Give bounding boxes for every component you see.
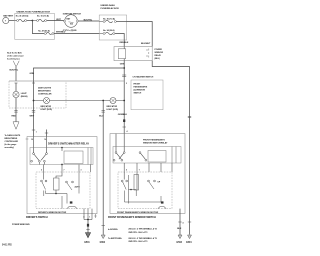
wire GRN vertical through gauge box bbox=[33, 81, 35, 137]
svg-text:DRIVER'S SWITCH/MASTER RELAY: DRIVER'S SWITCH/MASTER RELAY bbox=[48, 143, 89, 146]
svg-text:GRN: GRN bbox=[30, 73, 35, 75]
svg-text:fuse/relay box: fuse/relay box bbox=[7, 58, 21, 60]
svg-text:BLK/YEL: BLK/YEL bbox=[84, 20, 93, 22]
wire BLK to ground G503 bbox=[177, 209, 183, 235]
svg-text:No. 35 (7.5 A): No. 35 (7.5 A) bbox=[103, 18, 115, 21]
callout box: front passenger's switch note bbox=[131, 80, 163, 110]
legend: wire color notes bbox=[108, 228, 158, 244]
svg-text:of the under-hood: of the under-hood bbox=[7, 54, 24, 57]
svg-text:RED/BLK: RED/BLK bbox=[120, 42, 129, 44]
under-dash fuse/relay box bbox=[99, 4, 126, 40]
passenger switch DOWN contact bbox=[137, 172, 161, 190]
svg-text:(2) WINDOW: (2) WINDOW bbox=[134, 90, 145, 92]
pin tick bulb wire into box bbox=[15, 82, 18, 84]
svg-text:G503: G503 bbox=[176, 242, 182, 244]
svg-text:BLU: BLU bbox=[99, 116, 104, 118]
svg-text:2WD 5TH : BLU -4 T3: 2WD 5TH : BLU -4 T3 bbox=[128, 240, 148, 243]
wire BLK/YEL rail1 to under-dash box bbox=[79, 20, 100, 22]
svg-text:AUTO: AUTO bbox=[75, 186, 81, 189]
note: to dash lights brightness controller bbox=[5, 134, 21, 149]
svg-text:DRIVER'S SWITCH: DRIVER'S SWITCH bbox=[26, 216, 48, 219]
connector ticks on GRN/BLK vertical bbox=[118, 114, 128, 133]
passenger relay inner box bbox=[113, 134, 181, 163]
wire arrow from note (funnel) bbox=[13, 61, 19, 67]
fuse No.15 (7.5 A) bbox=[32, 14, 64, 21]
arrow to note (down triangle) bbox=[13, 122, 19, 129]
svg-text:C/V MASTER SWITCH: C/V MASTER SWITCH bbox=[133, 76, 154, 79]
fuse No.35 (7.5 A) bbox=[99, 18, 126, 23]
svg-text:FRONT PASSENGER'S WINDOW SWITC: FRONT PASSENGER'S WINDOW SWITCH bbox=[108, 216, 156, 219]
svg-text:(BLU): (BLU) bbox=[155, 58, 161, 60]
svg-text:DRIVER'S WINDOW MOTOR: DRIVER'S WINDOW MOTOR bbox=[38, 212, 67, 214]
passenger relay right contacts bbox=[172, 147, 176, 164]
svg-text:INDICATOR: INDICATOR bbox=[107, 105, 118, 108]
svg-text:To SWITCHES:: To SWITCHES: bbox=[108, 238, 122, 240]
ground G502 bbox=[100, 235, 106, 244]
dash lights brightness controller label bbox=[38, 87, 52, 96]
node junction after fuse 41 bbox=[32, 20, 34, 22]
svg-text:5: 5 bbox=[41, 170, 42, 172]
svg-text:UNDER-DASH: UNDER-DASH bbox=[101, 4, 116, 7]
node junction at passenger vertical bbox=[123, 100, 125, 102]
under-hood fuse/relay box bbox=[15, 11, 55, 40]
svg-text:2WD 5TH : BLU -4 T3: 2WD 5TH : BLU -4 T3 bbox=[128, 231, 148, 234]
power window master switch box bbox=[26, 137, 97, 214]
svg-text:No. 47 (40 A): No. 47 (40 A) bbox=[38, 29, 50, 32]
svg-text:INDICATOR: INDICATOR bbox=[41, 105, 52, 108]
pin tick bottom right of master box bbox=[94, 214, 96, 218]
passenger window motor M bbox=[158, 201, 166, 208]
svg-text:WINDOW: WINDOW bbox=[155, 52, 164, 54]
svg-text:IG2: IG2 bbox=[70, 23, 73, 25]
svg-text:WINDOW SWITCH/RELAY: WINDOW SWITCH/RELAY bbox=[143, 141, 168, 144]
gauge assembly dashed box bbox=[9, 81, 124, 108]
driver's switch dashed box bbox=[36, 172, 90, 209]
node junction GRN with indicator line bbox=[33, 100, 35, 102]
wire branch down to fuse 47 bbox=[32, 21, 44, 34]
master relay right contacts bbox=[88, 148, 91, 165]
svg-text:To DASH LIGHTS: To DASH LIGHTS bbox=[5, 134, 21, 137]
connector ticks on GRN vertical bbox=[30, 111, 37, 134]
driver's switch UP contact bbox=[41, 172, 47, 196]
svg-text:LIGHT (LED): LIGHT (LED) bbox=[41, 109, 53, 111]
svg-text:10: 10 bbox=[31, 139, 33, 141]
svg-text:(In the gauge: (In the gauge bbox=[5, 143, 18, 146]
svg-text:4: 4 bbox=[183, 222, 184, 225]
svg-text:CONTROLLER: CONTROLLER bbox=[38, 94, 52, 96]
fuse No.34 (20 A) bbox=[99, 29, 115, 34]
svg-text:BRIGHTNESS: BRIGHTNESS bbox=[5, 138, 18, 140]
pin tick GRN wire into box bbox=[32, 82, 35, 84]
svg-text:POWER: POWER bbox=[155, 49, 163, 51]
svg-text:FUSE/RELAY BOX: FUSE/RELAY BOX bbox=[101, 7, 120, 10]
svg-text:3: 3 bbox=[81, 170, 82, 172]
svg-text:GRN: GRN bbox=[120, 64, 125, 66]
svg-text:FRONT PASSENGER'S WINDOW MOTOR: FRONT PASSENGER'S WINDOW MOTOR bbox=[117, 211, 159, 214]
svg-text:4: 4 bbox=[83, 215, 84, 218]
wire battery to under-hood box bbox=[9, 20, 16, 22]
svg-text:assembly): assembly) bbox=[5, 147, 15, 149]
wire RED below gauge box bbox=[12, 108, 18, 122]
connector tick on right vertical bbox=[188, 116, 191, 117]
svg-text:LIGHT (LED): LIGHT (LED) bbox=[107, 109, 119, 111]
connector C on GRN/BLK vertical bbox=[122, 75, 154, 85]
svg-text:2: 2 bbox=[126, 83, 127, 85]
svg-text:BATTERY: BATTERY bbox=[3, 14, 13, 17]
ground G501 bbox=[84, 233, 90, 245]
driver's window motor M bbox=[67, 201, 77, 208]
driver's switch wire bbox=[46, 172, 80, 209]
svg-text:2001-03 : 2 THR GRN/BLU -4 T3: 2001-03 : 2 THR GRN/BLU -4 T3 bbox=[128, 237, 157, 240]
svg-text:DASH LIGHTS: DASH LIGHTS bbox=[38, 87, 52, 90]
master relay inner box bbox=[30, 137, 93, 165]
svg-text:BLK/YEL: BLK/YEL bbox=[10, 70, 19, 72]
wire rail2 WHT/BLU to under-dash box bbox=[54, 32, 99, 34]
svg-text:In BOXES:: In BOXES: bbox=[108, 229, 118, 231]
svg-text:RED: RED bbox=[12, 115, 17, 117]
driver's switch DOWN contact bbox=[54, 172, 81, 194]
svg-text:16: 16 bbox=[44, 139, 46, 141]
svg-text:POWER WINDOWS: POWER WINDOWS bbox=[12, 224, 30, 226]
node junction relay output to master bbox=[123, 67, 125, 69]
svg-text:G504: G504 bbox=[186, 241, 192, 244]
wire illumination ground drop bbox=[99, 100, 105, 235]
wire horizontal feed to master switch bbox=[34, 68, 125, 81]
svg-text:2001-03 : 2 THR GRN/BLU -4 T3: 2001-03 : 2 THR GRN/BLU -4 T3 bbox=[128, 228, 157, 231]
svg-text:IGNITION SWITCH: IGNITION SWITCH bbox=[63, 13, 82, 15]
svg-text:G502: G502 bbox=[100, 242, 106, 244]
wire indicator return stub into master box bbox=[45, 130, 48, 137]
svg-text:LIGHT: LIGHT bbox=[21, 93, 28, 95]
svg-text:1: 1 bbox=[89, 216, 90, 218]
passenger switch UP contact bbox=[121, 172, 127, 196]
svg-text:1: 1 bbox=[36, 132, 37, 134]
ground G503 bbox=[176, 235, 182, 244]
svg-text:G501: G501 bbox=[84, 242, 90, 244]
pins below master relay box bbox=[41, 164, 91, 172]
passenger relay coil bbox=[148, 151, 166, 163]
pins below passenger relay box bbox=[124, 163, 172, 172]
svg-text:BLK: BLK bbox=[177, 228, 182, 230]
svg-text:4: 4 bbox=[127, 130, 128, 133]
power window relay bbox=[114, 47, 163, 61]
svg-text:5: 5 bbox=[126, 170, 127, 172]
front passenger's window switch box bbox=[110, 134, 185, 214]
passenger switch bottom wire bbox=[125, 196, 162, 202]
svg-text:RELAY: RELAY bbox=[155, 54, 162, 57]
svg-text:WHT: WHT bbox=[56, 19, 61, 21]
ignition switch bbox=[63, 13, 82, 32]
svg-text:PASSENGER'S: PASSENGER'S bbox=[134, 86, 148, 89]
passenger switch resistor bbox=[134, 175, 139, 191]
wire indicator feed line bbox=[34, 100, 125, 102]
master relay contact 2 bbox=[41, 148, 47, 165]
passenger switch dashed box bbox=[118, 172, 172, 209]
svg-text:SWITCH: SWITCH bbox=[134, 93, 142, 95]
wire relay output right side bbox=[152, 61, 189, 235]
indicator light LED (master) bbox=[41, 98, 53, 111]
battery B1 bbox=[3, 14, 14, 23]
wire rail1 to right and down bbox=[127, 22, 153, 47]
svg-text:GRN/BLK: GRN/BLK bbox=[118, 114, 128, 116]
svg-text:54-11 FIG: 54-11 FIG bbox=[2, 244, 12, 247]
svg-text:No. 34 (20 A): No. 34 (20 A) bbox=[103, 29, 115, 32]
passenger relay contact 2 bbox=[119, 147, 147, 162]
svg-text:BLU/WHT: BLU/WHT bbox=[141, 43, 151, 45]
svg-text:(C)712 + (R)305: (C)712 + (R)305 bbox=[63, 30, 78, 32]
indicator light LED (passenger) bbox=[107, 98, 119, 111]
svg-text:(BULB): (BULB) bbox=[21, 96, 28, 98]
fuse No.41 (100 A) bbox=[16, 14, 33, 21]
note: to accessory (top-left) bbox=[7, 51, 24, 60]
wire fuse34 output down bbox=[115, 34, 129, 47]
svg-text:FRONT PASSENGER'S: FRONT PASSENGER'S bbox=[143, 139, 165, 142]
svg-text:No. 15 (7.5 A): No. 15 (7.5 A) bbox=[37, 14, 49, 17]
svg-text:CONTROLLER: CONTROLLER bbox=[5, 141, 19, 143]
svg-text:7: 7 bbox=[139, 170, 140, 172]
connector tick right main vertical bbox=[188, 221, 191, 223]
fuse No.47 (40 A) bbox=[38, 29, 54, 34]
pins below master box to ground bbox=[84, 209, 92, 221]
svg-text:FRONT: FRONT bbox=[134, 84, 141, 86]
ground G504 bbox=[186, 235, 192, 244]
illumination bulb bbox=[13, 83, 28, 108]
svg-text:No. 41 (100 A): No. 41 (100 A) bbox=[16, 14, 29, 17]
wire BLK/YEL into gauge assembly bbox=[10, 66, 19, 81]
svg-text:BRIGHTNESS: BRIGHTNESS bbox=[38, 91, 51, 93]
svg-text:No.4 To the BLK: No.4 To the BLK bbox=[7, 51, 22, 54]
wire BLK to ground G501 bbox=[86, 220, 89, 233]
passenger relay contact 1 bbox=[113, 147, 123, 162]
svg-text:7: 7 bbox=[64, 170, 65, 172]
svg-text:WHT: WHT bbox=[30, 115, 35, 117]
master relay coil bbox=[61, 147, 83, 165]
master relay contact 1 bbox=[31, 148, 41, 165]
wire relay output GRN down bbox=[120, 61, 125, 134]
